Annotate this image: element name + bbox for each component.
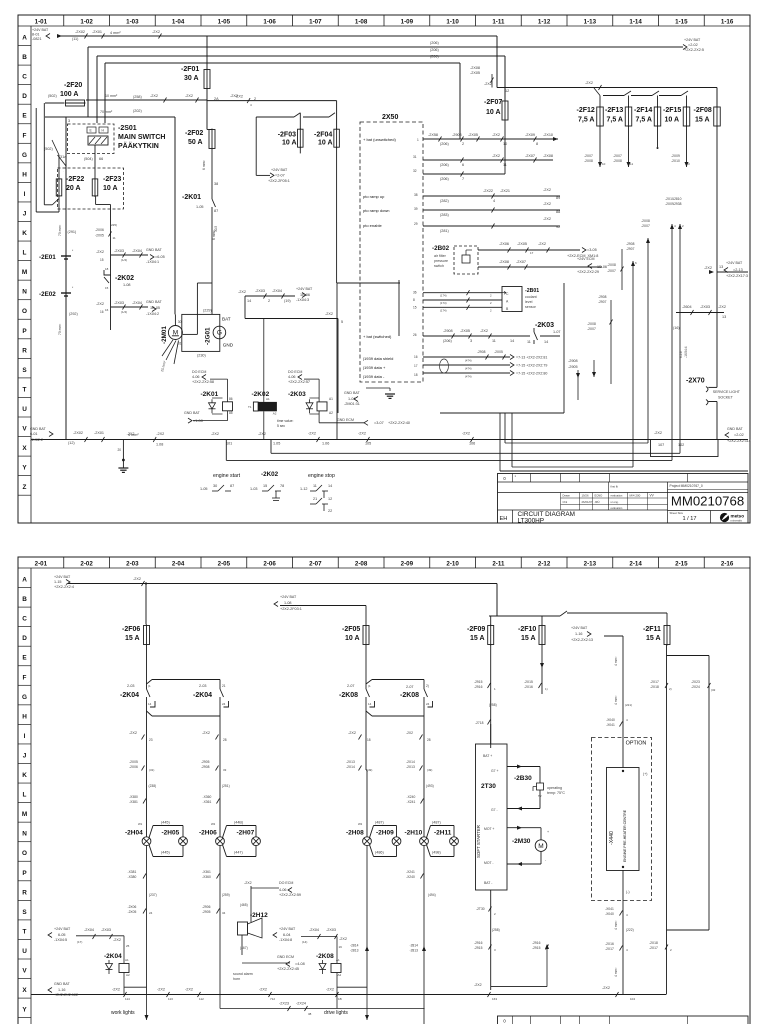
svg-text:(465): (465) bbox=[240, 903, 248, 907]
svg-text:1.08: 1.08 bbox=[156, 443, 163, 447]
svg-text:-1X04:3: -1X04:3 bbox=[296, 298, 309, 302]
svg-text:-2H04: -2H04 bbox=[125, 830, 143, 837]
svg-text:-X440: -X440 bbox=[609, 831, 615, 845]
svg-text:-2H06: -2H06 bbox=[199, 830, 217, 837]
svg-text:+2X2-2X17:3: +2X2-2X17:3 bbox=[726, 274, 748, 278]
svg-text:H: H bbox=[22, 713, 27, 720]
svg-text:-2H10: -2H10 bbox=[405, 830, 423, 837]
svg-text:-2X2: -2X2 bbox=[157, 988, 165, 992]
svg-text:1.05: 1.05 bbox=[273, 442, 280, 446]
svg-text:-2E01: -2E01 bbox=[39, 254, 56, 261]
svg-text:-2X2: -2X2 bbox=[492, 154, 500, 158]
svg-text:70 mm²: 70 mm² bbox=[58, 323, 62, 335]
svg-text:-2X08: -2X08 bbox=[499, 260, 509, 264]
svg-text:(487): (487) bbox=[375, 821, 385, 825]
svg-text:-2X17: -2X17 bbox=[605, 947, 614, 951]
svg-text:2: 2 bbox=[682, 224, 684, 228]
svg-text:-2F15: -2F15 bbox=[663, 107, 681, 114]
svg-text:89: 89 bbox=[556, 196, 560, 200]
svg-text:16: 16 bbox=[100, 310, 104, 314]
svg-text:1-14: 1-14 bbox=[629, 18, 642, 25]
svg-text:-2F03: -2F03 bbox=[278, 132, 296, 139]
svg-text:(11): (11) bbox=[72, 37, 79, 41]
svg-text:-1X04:4: -1X04:4 bbox=[684, 346, 688, 358]
svg-text:2-03: 2-03 bbox=[199, 684, 207, 688]
svg-text:-2X01: -2X01 bbox=[92, 30, 102, 34]
svg-text:-2K04: -2K04 bbox=[193, 692, 212, 699]
svg-text:1): 1) bbox=[545, 687, 548, 691]
svg-text:-X380: -X380 bbox=[129, 795, 138, 799]
svg-text:3: 3 bbox=[470, 339, 472, 343]
svg-text:Y: Y bbox=[22, 1007, 27, 1014]
svg-text:10 mm²: 10 mm² bbox=[105, 94, 118, 98]
svg-text:6: 6 bbox=[462, 163, 464, 167]
svg-text:(259): (259) bbox=[222, 893, 230, 897]
svg-text:Drawn: Drawn bbox=[563, 494, 571, 498]
svg-text:(+): (+) bbox=[643, 772, 648, 776]
svg-text:W2: W2 bbox=[358, 822, 363, 826]
svg-text:24: 24 bbox=[222, 702, 226, 706]
svg-text:2-03: 2-03 bbox=[126, 560, 139, 567]
svg-text:-0821: -0821 bbox=[32, 37, 42, 41]
svg-text:0: 0 bbox=[503, 1019, 506, 1024]
svg-text:O: O bbox=[22, 308, 27, 315]
svg-text:1-03: 1-03 bbox=[126, 18, 139, 25]
svg-text:(504): (504) bbox=[84, 157, 94, 161]
svg-text:7: 7 bbox=[462, 177, 464, 181]
svg-text:114: 114 bbox=[125, 997, 130, 1001]
svg-text:2: 2 bbox=[268, 299, 270, 303]
svg-text:work lights: work lights bbox=[111, 1010, 135, 1016]
svg-text:=2-07: =2-07 bbox=[275, 174, 285, 178]
svg-text:1B-06: 1B-06 bbox=[300, 293, 310, 297]
svg-text:11: 11 bbox=[313, 484, 317, 488]
svg-text:+24V BAT: +24V BAT bbox=[280, 595, 297, 599]
svg-text:-2F07: -2F07 bbox=[484, 99, 502, 106]
svg-text:21: 21 bbox=[313, 497, 317, 501]
svg-text:70 mm²: 70 mm² bbox=[58, 224, 62, 236]
svg-text:(258): (258) bbox=[492, 928, 500, 932]
svg-text:(19): (19) bbox=[284, 299, 291, 303]
svg-text:-2X03: -2X03 bbox=[700, 305, 710, 309]
svg-text:T: T bbox=[23, 386, 27, 393]
svg-text:-2X2: -2X2 bbox=[543, 202, 551, 206]
svg-text:SOCKET: SOCKET bbox=[718, 396, 734, 400]
svg-text:W2: W2 bbox=[211, 822, 216, 826]
svg-text:-2X09: -2X09 bbox=[671, 154, 680, 158]
svg-text:J: J bbox=[23, 752, 27, 759]
svg-text:5 sec: 5 sec bbox=[277, 424, 285, 428]
svg-text:4 mm²: 4 mm² bbox=[110, 31, 121, 35]
svg-text:-2F13: -2F13 bbox=[605, 107, 623, 114]
svg-text:-1X02:2: -1X02:2 bbox=[30, 438, 43, 442]
svg-text:(283): (283) bbox=[440, 213, 450, 217]
svg-text:-2X2: -2X2 bbox=[406, 731, 413, 735]
svg-text:+24V BAT: +24V BAT bbox=[684, 38, 701, 42]
svg-text:=2-02: =2-02 bbox=[688, 43, 698, 47]
svg-text:-2X02: -2X02 bbox=[75, 30, 85, 34]
svg-text:1-01: 1-01 bbox=[35, 18, 48, 25]
svg-text:-2X05: -2X05 bbox=[494, 350, 503, 354]
svg-text:1B-06: 1B-06 bbox=[597, 265, 607, 269]
svg-text:-2X16: -2X16 bbox=[605, 942, 614, 946]
svg-text:2-07: 2-07 bbox=[347, 684, 355, 688]
svg-text:-2F02: -2F02 bbox=[185, 130, 203, 137]
svg-text:F: F bbox=[23, 674, 27, 681]
svg-text:50 A: 50 A bbox=[188, 139, 203, 146]
svg-text:-2X13: -2X13 bbox=[406, 765, 415, 769]
svg-text:-2718: -2718 bbox=[475, 721, 484, 725]
svg-text:-2X2: -2X2 bbox=[112, 988, 120, 992]
svg-text:-2H11: -2H11 bbox=[434, 830, 452, 837]
svg-text:(14): (14) bbox=[302, 940, 307, 944]
svg-text:107: 107 bbox=[658, 443, 664, 447]
svg-text:163: 163 bbox=[492, 997, 497, 1001]
svg-text:2-04: 2-04 bbox=[172, 560, 185, 567]
svg-text:-2T30: -2T30 bbox=[476, 907, 485, 911]
svg-text:30 A: 30 A bbox=[184, 75, 199, 82]
svg-text:C: C bbox=[506, 292, 509, 296]
svg-text:2-03: 2-03 bbox=[127, 684, 135, 688]
svg-text:-X040: -X040 bbox=[605, 912, 614, 916]
svg-text:-2F01: -2F01 bbox=[181, 66, 199, 73]
svg-text:-2X03: -2X03 bbox=[255, 289, 265, 293]
svg-text:-2907: -2907 bbox=[626, 247, 635, 251]
svg-text:+2X2-2X2:102: +2X2-2X2:102 bbox=[54, 993, 78, 997]
svg-text:EH: EH bbox=[500, 516, 508, 522]
svg-text:-2X15: -2X15 bbox=[524, 680, 533, 684]
svg-text:-2X04: -2X04 bbox=[132, 249, 142, 253]
svg-text:1B: 1B bbox=[338, 997, 342, 1001]
svg-text:22: 22 bbox=[328, 509, 332, 513]
svg-text:P: P bbox=[22, 328, 27, 335]
svg-text:-2905: -2905 bbox=[201, 760, 210, 764]
svg-text:-X041: -X041 bbox=[606, 723, 615, 727]
svg-text:-2F05: -2F05 bbox=[342, 626, 360, 633]
svg-text:(474): (474) bbox=[465, 359, 472, 363]
svg-text:-2X05: -2X05 bbox=[460, 329, 470, 333]
svg-text:.: . bbox=[63, 171, 64, 173]
svg-text:-2K08: -2K08 bbox=[339, 692, 358, 699]
svg-text:=2-13: =2-13 bbox=[733, 268, 743, 272]
svg-text:1-08: 1-08 bbox=[123, 283, 131, 287]
svg-text:2-05: 2-05 bbox=[218, 560, 231, 567]
svg-text:-2X2: -2X2 bbox=[474, 983, 482, 987]
svg-text:101: 101 bbox=[226, 442, 232, 446]
svg-text:-2X2: -2X2 bbox=[185, 988, 193, 992]
svg-text:C: C bbox=[22, 74, 27, 81]
svg-text:2-15: 2-15 bbox=[675, 560, 688, 567]
svg-text:-2F08: -2F08 bbox=[694, 107, 712, 114]
svg-text:=6-05: =6-05 bbox=[155, 255, 165, 259]
svg-text:-2X18: -2X18 bbox=[649, 941, 658, 945]
svg-text:JRÜ: JRÜ bbox=[595, 500, 600, 504]
svg-text:1-12: 1-12 bbox=[300, 487, 308, 491]
svg-text:+24V BAT: +24V BAT bbox=[54, 575, 71, 579]
svg-text:(31): (31) bbox=[149, 768, 154, 772]
svg-text:-2X2: -2X2 bbox=[543, 188, 551, 192]
svg-text:-2F06: -2F06 bbox=[122, 626, 140, 633]
svg-text:S: S bbox=[22, 367, 27, 374]
svg-text:-2X2: -2X2 bbox=[654, 431, 662, 435]
svg-text:-2X04: -2X04 bbox=[132, 301, 142, 305]
svg-text:BAT +: BAT + bbox=[483, 754, 492, 758]
svg-text:(447): (447) bbox=[234, 851, 244, 855]
svg-text:20 A: 20 A bbox=[66, 185, 81, 192]
svg-text:-2X70: -2X70 bbox=[686, 378, 705, 385]
svg-text:-2X2: -2X2 bbox=[704, 266, 712, 270]
svg-text:-2908: -2908 bbox=[568, 359, 578, 363]
svg-text:+ bat (unswitched): + bat (unswitched) bbox=[363, 137, 396, 142]
svg-text:-2X2: -2X2 bbox=[484, 82, 492, 86]
svg-text:3: 3 bbox=[68, 119, 70, 123]
svg-text:100 A: 100 A bbox=[60, 91, 78, 98]
svg-text:-2938: -2938 bbox=[673, 202, 682, 206]
svg-text:-2X2: -2X2 bbox=[358, 432, 366, 436]
svg-text:11: 11 bbox=[113, 236, 116, 240]
svg-text:-2X2: -2X2 bbox=[96, 302, 104, 306]
svg-text:-2X2: -2X2 bbox=[348, 731, 356, 735]
svg-text:(487): (487) bbox=[432, 821, 442, 825]
svg-text:10 A: 10 A bbox=[282, 140, 297, 147]
svg-text:1-02: 1-02 bbox=[80, 18, 93, 25]
svg-text:-2E02: -2E02 bbox=[39, 291, 56, 298]
svg-text:6 mm²: 6 mm² bbox=[202, 160, 206, 170]
svg-text:-2X04: -2X04 bbox=[84, 928, 94, 932]
svg-text:25: 25 bbox=[126, 944, 130, 948]
svg-text:1-04: 1-04 bbox=[172, 18, 185, 25]
svg-text:-2X05: -2X05 bbox=[470, 71, 480, 75]
svg-text:Project MM0210767_0: Project MM0210767_0 bbox=[670, 484, 703, 488]
svg-text:MAIN SWITCH: MAIN SWITCH bbox=[118, 134, 165, 141]
svg-text:minerals: minerals bbox=[731, 519, 743, 523]
svg-text:-2K02: -2K02 bbox=[261, 471, 279, 478]
svg-text:K: K bbox=[22, 230, 27, 237]
svg-text:19: 19 bbox=[339, 945, 343, 949]
svg-text:-2X2: -2X2 bbox=[185, 94, 193, 98]
svg-text:-2K01: -2K01 bbox=[201, 391, 219, 398]
svg-text:8: 8 bbox=[536, 142, 538, 146]
svg-text:16: 16 bbox=[414, 355, 418, 359]
svg-text:15 A: 15 A bbox=[125, 635, 140, 642]
svg-text:temp: 75°C: temp: 75°C bbox=[547, 791, 565, 795]
svg-text:-2F12: -2F12 bbox=[577, 107, 595, 114]
svg-text:+2X2-2X2:29: +2X2-2X2:29 bbox=[577, 270, 599, 274]
svg-text:-X381: -X381 bbox=[129, 800, 138, 804]
svg-text:14: 14 bbox=[247, 299, 251, 303]
svg-text:17: 17 bbox=[530, 251, 534, 255]
svg-text:5: 5 bbox=[341, 320, 343, 324]
svg-text:A1: A1 bbox=[329, 397, 333, 401]
svg-text:air filter: air filter bbox=[434, 254, 447, 258]
svg-text:A2: A2 bbox=[273, 412, 277, 416]
svg-text:=3-05: =3-05 bbox=[587, 248, 597, 252]
svg-text:B: B bbox=[22, 596, 27, 603]
svg-text:-2H07: -2H07 bbox=[237, 830, 255, 837]
svg-text:coolant: coolant bbox=[525, 295, 537, 299]
svg-text:4-06: 4-06 bbox=[192, 375, 200, 379]
svg-text:=7-13 +2X2-2X2:81: =7-13 +2X2-2X2:81 bbox=[516, 356, 547, 360]
svg-text:-2X14: -2X14 bbox=[346, 765, 355, 769]
svg-text:86: 86 bbox=[229, 397, 233, 401]
svg-text:(258): (258) bbox=[489, 703, 497, 707]
svg-text:1-05: 1-05 bbox=[200, 487, 208, 491]
svg-text:LT300HP: LT300HP bbox=[518, 517, 545, 524]
svg-text:(49): (49) bbox=[427, 768, 432, 772]
svg-text:1-16: 1-16 bbox=[58, 988, 66, 992]
svg-text:(16): (16) bbox=[673, 326, 680, 330]
svg-text:2X50: 2X50 bbox=[382, 114, 398, 121]
svg-text:2-08: 2-08 bbox=[355, 560, 368, 567]
svg-text:DO ECM: DO ECM bbox=[279, 881, 293, 885]
svg-text:C: C bbox=[22, 616, 27, 623]
svg-text:(206): (206) bbox=[440, 142, 450, 146]
svg-text:85: 85 bbox=[229, 411, 233, 415]
svg-text:1-06: 1-06 bbox=[263, 18, 276, 25]
svg-text:-1X04:8: -1X04:8 bbox=[279, 938, 292, 942]
svg-text:G: G bbox=[22, 152, 27, 159]
svg-text:10 A: 10 A bbox=[345, 635, 360, 642]
svg-text:66: 66 bbox=[99, 157, 103, 161]
svg-text:36: 36 bbox=[413, 291, 417, 295]
svg-text:13: 13 bbox=[722, 315, 726, 319]
svg-text:P: P bbox=[22, 870, 27, 877]
svg-text:-2813: -2813 bbox=[350, 949, 359, 953]
svg-text:1-10: 1-10 bbox=[446, 18, 459, 25]
svg-text:-X240: -X240 bbox=[406, 875, 415, 879]
svg-text:3: 3 bbox=[688, 162, 690, 166]
svg-text:38: 38 bbox=[214, 182, 218, 186]
svg-text:21: 21 bbox=[222, 684, 226, 688]
svg-text:=4-08: =4-08 bbox=[295, 962, 305, 966]
svg-text:evaluation: evaluation bbox=[611, 494, 623, 498]
svg-text:-2X01: -2X01 bbox=[94, 431, 104, 435]
svg-text:-2916: -2916 bbox=[474, 685, 483, 689]
svg-text:-2X2: -2X2 bbox=[156, 432, 164, 436]
svg-text:-: - bbox=[545, 858, 547, 862]
svg-text:39: 39 bbox=[414, 207, 418, 211]
svg-text:2: 2 bbox=[462, 142, 464, 146]
svg-text:(251): (251) bbox=[222, 784, 230, 788]
svg-text:-2H09: -2H09 bbox=[376, 830, 394, 837]
svg-text:-2F04: -2F04 bbox=[314, 132, 332, 139]
svg-text:-2H08: -2H08 bbox=[346, 830, 364, 837]
svg-text:-2X07: -2X07 bbox=[587, 327, 596, 331]
svg-text:(174): (174) bbox=[440, 301, 447, 305]
svg-text:-X041: -X041 bbox=[605, 907, 614, 911]
svg-text:-X040: -X040 bbox=[606, 718, 615, 722]
svg-text:6: 6 bbox=[635, 261, 637, 265]
svg-text:-2X2: -2X2 bbox=[127, 432, 135, 436]
svg-text:-X360: -X360 bbox=[202, 875, 211, 879]
svg-text:switch: switch bbox=[434, 264, 444, 268]
svg-text:level: level bbox=[525, 300, 533, 304]
svg-text:pto ramp down: pto ramp down bbox=[363, 208, 389, 213]
svg-text:N: N bbox=[22, 831, 27, 838]
svg-text:1: 1 bbox=[417, 138, 419, 142]
svg-text:(291): (291) bbox=[68, 230, 78, 234]
svg-text:MOT +: MOT + bbox=[484, 827, 494, 831]
svg-text:-2F14: -2F14 bbox=[634, 107, 652, 114]
svg-text:38: 38 bbox=[414, 193, 418, 197]
svg-text:23: 23 bbox=[149, 738, 153, 742]
svg-text:105: 105 bbox=[365, 442, 371, 446]
svg-text:V: V bbox=[22, 426, 27, 433]
svg-text:A2: A2 bbox=[338, 973, 342, 977]
svg-text:-2F10: -2F10 bbox=[518, 626, 536, 633]
svg-text:(206): (206) bbox=[430, 41, 440, 45]
svg-text:+2X2-2X2:45: +2X2-2X2:45 bbox=[277, 967, 299, 971]
svg-text:-2X04: -2X04 bbox=[309, 928, 319, 932]
svg-text:+24V BAT: +24V BAT bbox=[271, 168, 288, 172]
svg-text:-2X2: -2X2 bbox=[113, 938, 121, 942]
svg-text:OPTION: OPTION bbox=[626, 741, 647, 747]
svg-text:(282): (282) bbox=[440, 199, 450, 203]
svg-text:-2X18: -2X18 bbox=[650, 685, 659, 689]
svg-text:-2908: -2908 bbox=[598, 295, 607, 299]
svg-text:*: * bbox=[72, 286, 74, 290]
svg-text:-X241: -X241 bbox=[406, 870, 415, 874]
svg-text:-2X06: -2X06 bbox=[129, 765, 138, 769]
svg-text:-2B01: -2B01 bbox=[525, 288, 539, 294]
svg-text:+24V ECM: +24V ECM bbox=[577, 257, 594, 261]
svg-text:+2X2-2X2:40: +2X2-2X2:40 bbox=[388, 421, 410, 425]
svg-text:-2X2: -2X2 bbox=[585, 81, 593, 85]
svg-text:4 mm²: 4 mm² bbox=[614, 920, 618, 930]
svg-text:2): 2) bbox=[669, 687, 672, 691]
svg-text:-2X10: -2X10 bbox=[543, 133, 553, 137]
svg-text:GND BAT: GND BAT bbox=[54, 982, 71, 986]
svg-text:+2X2-2X2:114: +2X2-2X2:114 bbox=[727, 439, 751, 443]
svg-text:24: 24 bbox=[149, 911, 153, 915]
svg-text:+2X2-2F05:1: +2X2-2F05:1 bbox=[268, 179, 290, 183]
svg-text:6-04: 6-04 bbox=[283, 933, 291, 937]
svg-text:-2G01: -2G01 bbox=[205, 327, 212, 345]
svg-text:BAT -: BAT - bbox=[484, 881, 492, 885]
svg-text:-2X2: -2X2 bbox=[462, 432, 470, 436]
svg-text:(230): (230) bbox=[197, 354, 207, 358]
svg-text:2-02: 2-02 bbox=[80, 560, 93, 567]
svg-text:(445): (445) bbox=[161, 821, 171, 825]
svg-text:4: 4 bbox=[493, 199, 495, 203]
svg-text:4: 4 bbox=[626, 948, 628, 952]
svg-text:-2916: -2916 bbox=[474, 941, 483, 945]
svg-text:1-08: 1-08 bbox=[284, 601, 292, 605]
svg-text:87: 87 bbox=[214, 209, 218, 213]
svg-text:20: 20 bbox=[118, 448, 122, 452]
svg-text:15 A: 15 A bbox=[695, 117, 710, 124]
svg-text:1-16: 1-16 bbox=[575, 632, 583, 636]
svg-text:W1: W1 bbox=[138, 822, 143, 826]
svg-text:1-03: 1-03 bbox=[250, 487, 258, 491]
svg-text:G7 +: G7 + bbox=[491, 769, 498, 773]
svg-text:2-12: 2-12 bbox=[538, 560, 551, 567]
svg-text:A2: A2 bbox=[329, 411, 333, 415]
svg-text:30.5: 30.5 bbox=[214, 226, 218, 232]
svg-text:D: D bbox=[22, 635, 27, 642]
svg-text:(1: (1 bbox=[368, 684, 371, 688]
svg-text:34: 34 bbox=[222, 911, 226, 915]
svg-text:11: 11 bbox=[630, 162, 633, 166]
svg-text:(202): (202) bbox=[133, 109, 143, 113]
svg-text:70 mm²: 70 mm² bbox=[100, 110, 113, 114]
svg-text:106: 106 bbox=[469, 442, 475, 446]
svg-text:A1: A1 bbox=[125, 958, 129, 962]
svg-text:1: 1 bbox=[515, 474, 517, 478]
svg-text:GND BAT: GND BAT bbox=[146, 248, 163, 252]
svg-text:1-05: 1-05 bbox=[196, 205, 204, 209]
svg-text:D: D bbox=[22, 93, 27, 100]
